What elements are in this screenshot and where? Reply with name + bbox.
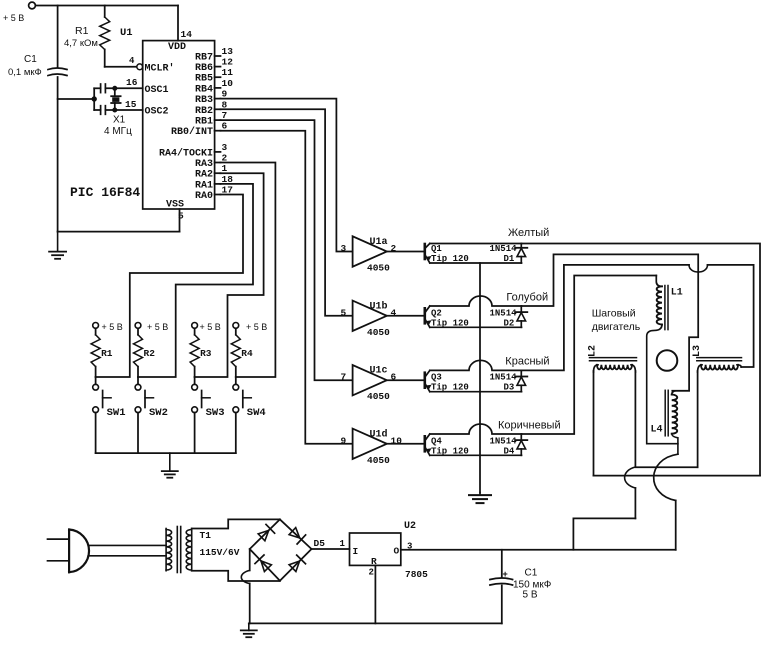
+5V terminal SW3	[192, 322, 221, 332]
capacitor osc2	[94, 106, 105, 115]
svg-text:R2: R2	[144, 348, 156, 359]
bridge diode bottom-left	[255, 555, 271, 572]
switch SW1	[93, 377, 126, 453]
motor rotor	[657, 350, 678, 371]
svg-text:U1a: U1a	[370, 237, 388, 248]
svg-text:2: 2	[369, 568, 374, 578]
wire bridge minus to ground with hop	[241, 549, 249, 623]
AC plug	[48, 530, 90, 573]
svg-text:R1: R1	[75, 25, 89, 37]
svg-text:R3: R3	[200, 348, 212, 359]
wire AC cord	[88, 545, 166, 555]
wire +5V output	[401, 549, 676, 551]
inductor L4	[651, 390, 678, 436]
transistor Q2 Tip120	[425, 296, 522, 328]
bridge diode top-left	[258, 524, 274, 540]
inductor L1	[656, 276, 683, 330]
svg-text:U1: U1	[120, 27, 133, 39]
svg-text:U1c: U1c	[370, 366, 388, 377]
svg-text:4050: 4050	[367, 391, 390, 402]
wire L2 right end down with hop	[625, 371, 636, 518]
svg-text:R4: R4	[241, 348, 253, 359]
transistor Q4 Tip120	[425, 424, 522, 456]
svg-text:Q3: Q3	[431, 373, 442, 383]
ground switches	[162, 453, 178, 478]
pin 9 RB3 stub	[195, 89, 228, 107]
svg-text:4050: 4050	[367, 327, 390, 338]
wire Q3 collector rail riser	[522, 265, 754, 371]
wire Q2 collector rail riser	[522, 254, 699, 390]
transistor Q3 Tip120	[425, 360, 522, 392]
transformer T1 core	[177, 527, 180, 573]
svg-text:VSS: VSS	[166, 200, 184, 211]
svg-text:5 В: 5 В	[523, 590, 538, 601]
svg-text:RB4: RB4	[195, 84, 213, 95]
transistor Q1 Tip120	[425, 244, 522, 265]
pin 11 RB5 stub	[195, 67, 233, 85]
pin 2 RA3 stub	[195, 153, 228, 171]
svg-text:L4: L4	[651, 425, 663, 436]
+5V terminal SW1	[93, 322, 123, 332]
resistor R4 pullup	[231, 328, 253, 377]
svg-text:O: O	[394, 546, 400, 557]
svg-text:1N514: 1N514	[490, 373, 518, 383]
svg-text:3: 3	[341, 243, 347, 254]
svg-text:U1d: U1d	[370, 428, 388, 440]
MCLR inverting bubble	[129, 56, 143, 70]
svg-text:16: 16	[126, 77, 138, 88]
wire VDD	[168, 6, 192, 54]
svg-text:R1: R1	[101, 348, 113, 359]
switch SW2	[135, 377, 168, 453]
svg-text:MCLR': MCLR'	[145, 63, 175, 75]
svg-text:L1: L1	[671, 288, 683, 299]
wire left rail lower	[57, 77, 59, 232]
wire emitters to ground	[479, 263, 481, 493]
ground bridge	[241, 623, 257, 637]
svg-text:RB3: RB3	[195, 95, 213, 106]
wire D5 bridge to regulator	[312, 538, 350, 549]
wire Q1 collector rail to L2-left	[522, 244, 761, 476]
svg-text:U1b: U1b	[370, 300, 388, 312]
wire L4 top hook	[672, 391, 689, 395]
svg-text:14: 14	[181, 29, 193, 40]
svg-text:C1: C1	[525, 568, 538, 579]
svg-text:D5: D5	[314, 538, 326, 549]
svg-text:Q1: Q1	[431, 244, 442, 254]
svg-text:OSC2: OSC2	[145, 107, 169, 118]
wire crystal left vertical	[93, 88, 95, 110]
svg-text:+: +	[503, 569, 508, 579]
resistor R2 pullup	[134, 328, 156, 377]
diode D2 1N514	[490, 306, 528, 328]
svg-text:4050: 4050	[367, 263, 390, 274]
svg-text:1N514: 1N514	[490, 244, 518, 254]
svg-text:13: 13	[222, 46, 234, 57]
wire MCLR	[105, 66, 137, 68]
wire secondary top to bridge	[192, 519, 280, 528]
capacitor C1 0,1uF	[8, 54, 67, 78]
svg-text:RA0: RA0	[195, 191, 213, 202]
transformer T1 primary	[166, 529, 172, 571]
svg-text:4: 4	[129, 56, 135, 66]
svg-text:0,1 мкФ: 0,1 мкФ	[8, 67, 42, 78]
pin 8 RB2 stub	[195, 99, 228, 117]
svg-text:RB2: RB2	[195, 106, 213, 117]
svg-text:RA1: RA1	[195, 180, 213, 191]
+5V terminal SW4	[233, 322, 267, 332]
wire L1 bottom to +5V node	[647, 325, 678, 444]
wire L3 left end down	[697, 371, 699, 467]
wire RA0 pin17 to SW1	[96, 195, 243, 378]
regulator U2 7805	[350, 521, 429, 580]
svg-text:RA4/TOCKI: RA4/TOCKI	[159, 147, 213, 159]
svg-text:Шаговый: Шаговый	[592, 308, 636, 320]
wire buffer U1b output	[387, 315, 425, 317]
wire buffer U1c output	[387, 379, 425, 381]
switch SW4	[233, 377, 266, 453]
wire Q4 collector rail riser	[522, 276, 657, 435]
resistor R3 pullup	[190, 328, 212, 377]
svg-text:D1: D1	[504, 254, 515, 264]
pin 6 RB0/INT stub	[171, 121, 228, 139]
svg-text:RB0/INT: RB0/INT	[171, 126, 213, 138]
wire L2-right to 7805 output	[573, 518, 635, 549]
wire buffer U1d output	[387, 443, 425, 445]
svg-text:7: 7	[341, 372, 347, 383]
svg-text:1N514: 1N514	[490, 308, 518, 318]
svg-text:Красный: Красный	[505, 356, 549, 368]
buffer U1a 4050 input pin 3	[341, 236, 397, 273]
svg-text:I: I	[353, 546, 359, 557]
svg-text:4 МГц: 4 МГц	[104, 126, 132, 137]
wire RB pin7 to buffer	[221, 120, 353, 380]
svg-text:Голубой: Голубой	[506, 291, 548, 303]
wire left rail upper	[57, 6, 59, 68]
bridge diode top-right	[289, 528, 306, 544]
svg-text:RB6: RB6	[195, 63, 213, 74]
IC U1 PIC 16F84 body	[70, 27, 215, 209]
svg-text:RA2: RA2	[195, 170, 213, 181]
crystal X1 4MHz	[104, 86, 132, 137]
buffer U1b 4050 input pin 5	[341, 300, 397, 338]
pin 13 RB7 stub	[195, 46, 233, 64]
wire RA1 pin18 to SW2	[138, 184, 253, 377]
wire RA3 pin2 to SW4	[221, 163, 276, 378]
ground drivers	[469, 493, 491, 504]
wire L4 bottom to +5V with big hop	[654, 434, 678, 550]
buffer U1d 4050 input pin 9	[341, 428, 403, 466]
pin 17 RA0 stub	[195, 185, 233, 203]
svg-text:SW3: SW3	[206, 407, 225, 419]
svg-text:11: 11	[222, 67, 234, 78]
svg-text:1N514: 1N514	[490, 436, 518, 446]
wire secondary bottom to bridge	[192, 571, 280, 581]
diode D3 1N514	[490, 370, 528, 392]
svg-text:4050: 4050	[367, 455, 390, 466]
svg-text:115V/6V: 115V/6V	[200, 547, 240, 558]
ground left	[49, 232, 66, 259]
wire RB pin8 to buffer	[221, 109, 353, 315]
wire buffer U1a output	[387, 251, 425, 253]
svg-text:Q2: Q2	[431, 308, 442, 318]
switch SW3	[192, 377, 225, 453]
svg-text:+ 5 В: + 5 В	[200, 322, 221, 332]
wire OSC1	[105, 77, 142, 88]
svg-text:L3: L3	[692, 345, 703, 357]
+5V terminal SW2	[135, 322, 168, 332]
svg-text:+ 5 В: + 5 В	[102, 322, 123, 332]
svg-text:OSC1: OSC1	[145, 85, 169, 96]
svg-text:C1: C1	[24, 54, 37, 65]
pin 12 RB6 stub	[195, 57, 233, 75]
svg-text:RB1: RB1	[195, 117, 213, 128]
svg-text:Tip 120: Tip 120	[431, 254, 469, 264]
svg-text:PIC 16F84: PIC 16F84	[70, 185, 140, 200]
pin 7 RB1 stub	[195, 110, 228, 128]
svg-text:SW2: SW2	[149, 407, 168, 419]
svg-text:VDD: VDD	[168, 42, 186, 53]
label Желтый wire color	[508, 227, 549, 239]
svg-text:Tip 120: Tip 120	[431, 383, 469, 393]
wire bus L2-left to Q1 rail	[594, 475, 761, 477]
label Коричневый wire color	[498, 419, 561, 431]
svg-text:+ 5 В: + 5 В	[147, 322, 168, 332]
resistor R1 4.7k	[64, 6, 110, 67]
transformer T1 secondary	[186, 529, 240, 571]
pin 18 RA1 stub	[195, 174, 233, 192]
svg-text:D4: D4	[504, 446, 515, 456]
svg-text:5: 5	[178, 211, 184, 222]
svg-text:3: 3	[222, 142, 228, 153]
svg-text:U2: U2	[404, 521, 416, 532]
pin 10 RB4 stub	[195, 78, 233, 96]
label Красный wire color	[505, 356, 549, 368]
svg-text:RB5: RB5	[195, 74, 213, 85]
svg-text:Коричневый: Коричневый	[498, 419, 561, 431]
resistor R1 pullup	[91, 328, 113, 377]
pin 1 RA2 stub	[195, 163, 228, 181]
node A junction crystal-rail	[58, 97, 97, 101]
buffer U1c 4050 input pin 7	[341, 365, 397, 402]
svg-text:SW1: SW1	[107, 407, 126, 419]
svg-text:двигатель: двигатель	[592, 321, 641, 333]
svg-text:Tip 120: Tip 120	[431, 446, 469, 456]
bridge diode bottom-right	[289, 555, 305, 571]
diode D1 1N514	[490, 244, 528, 265]
wire regulator R pin to ground bus	[374, 565, 376, 623]
wire OSC2	[105, 99, 142, 110]
svg-text:9: 9	[341, 435, 347, 446]
label stepper motor	[592, 308, 641, 334]
svg-text:+ 5 В: + 5 В	[246, 322, 267, 332]
svg-text:10: 10	[222, 78, 234, 89]
svg-text:D2: D2	[504, 318, 515, 328]
svg-text:T1: T1	[200, 530, 212, 541]
wire switch ground bus	[96, 452, 236, 454]
svg-text:SW4: SW4	[247, 407, 266, 419]
svg-text:1: 1	[340, 539, 346, 549]
svg-text:+ 5 В: + 5 В	[3, 13, 24, 23]
inductor L2	[588, 345, 637, 372]
svg-text:X1: X1	[113, 115, 126, 126]
capacitor C1 150uF	[490, 550, 552, 624]
wire VSS	[58, 200, 184, 232]
svg-text:RA3: RA3	[195, 159, 213, 170]
wire RB pin9 to buffer	[221, 99, 353, 252]
pin 3 RA4/TOCKI stub	[159, 142, 228, 160]
svg-text:4,7 кОм: 4,7 кОм	[64, 38, 98, 49]
capacitor osc1	[94, 84, 105, 93]
wire RB pin6 to buffer	[221, 131, 353, 444]
svg-text:12: 12	[222, 57, 234, 68]
svg-text:Tip 120: Tip 120	[431, 318, 469, 328]
svg-text:L2: L2	[588, 345, 599, 357]
wire bus L3-left common	[636, 466, 698, 468]
svg-text:5: 5	[341, 307, 347, 318]
wire top +5V rail	[35, 5, 178, 7]
bridge rectifier diamond	[250, 519, 312, 580]
diode D4 1N514	[490, 434, 528, 456]
svg-text:7805: 7805	[405, 569, 428, 580]
wire RA2 pin1 to SW3	[195, 173, 264, 377]
label Голубой wire color	[506, 291, 548, 303]
+5V supply terminal	[3, 2, 35, 23]
svg-text:15: 15	[125, 99, 137, 110]
wire ground bus bottom	[249, 622, 502, 624]
svg-text:RB7: RB7	[195, 53, 213, 64]
svg-text:D3: D3	[504, 383, 515, 393]
inductor L3	[692, 345, 742, 372]
svg-text:Q4: Q4	[431, 436, 442, 446]
svg-text:Желтый: Желтый	[508, 227, 549, 239]
wire L2 left end down	[593, 371, 595, 476]
